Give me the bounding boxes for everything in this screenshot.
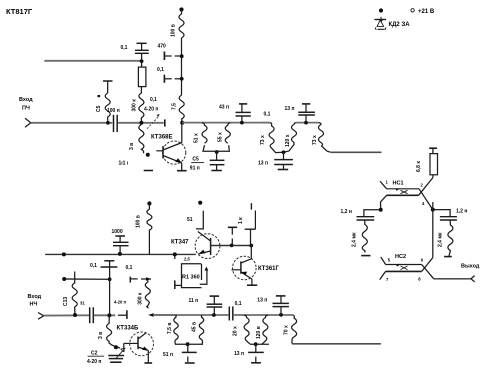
- node A junction dot: [139, 121, 143, 125]
- svg-text:С13: С13: [63, 297, 69, 306]
- svg-text:1,2 н: 1,2 н: [341, 209, 352, 215]
- capacitor 13p shunt up bottom: [273, 296, 289, 315]
- wire base lead T1: [156, 150, 163, 152]
- svg-text:4-20 п: 4-20 п: [87, 359, 101, 365]
- ground bar right chain: [444, 256, 452, 258]
- svg-text:КТ347: КТ347: [171, 240, 189, 246]
- bypass cap 0,1: [164, 75, 181, 83]
- svg-text:0,1: 0,1: [121, 45, 128, 51]
- pin 4 lead: [419, 189, 433, 210]
- capacitor series 0,1 gap style in rail: [260, 122, 270, 124]
- trimmer C1 arrow: [147, 117, 158, 129]
- junction dot 11p: [212, 313, 216, 317]
- wire emitter VT3: [251, 279, 253, 285]
- ground bar left chain: [361, 255, 370, 257]
- svg-text:13 п: 13 п: [285, 106, 295, 112]
- svg-text:КТ334Б: КТ334Б: [117, 326, 139, 332]
- coil audio feed: [72, 272, 77, 315]
- svg-text:43 п: 43 п: [219, 105, 229, 111]
- junction dot 1k: [249, 244, 253, 248]
- svg-text:НС1: НС1: [393, 181, 404, 187]
- coil L7: [319, 123, 331, 153]
- junction dot L6 bottom: [282, 150, 286, 154]
- svg-text:0,1: 0,1: [235, 301, 242, 307]
- svg-text:4-20 п: 4-20 п: [114, 300, 127, 305]
- svg-text:0,1: 0,1: [157, 67, 164, 73]
- svg-text:0,1: 0,1: [90, 263, 97, 269]
- wire left mixer branch: [364, 210, 381, 216]
- svg-text:31: 31: [80, 300, 85, 305]
- coil L5: [225, 123, 230, 143]
- svg-text:КТ817Г: КТ817Г: [6, 7, 33, 16]
- svg-text:13 п: 13 п: [258, 161, 268, 167]
- arrow wire to bias coil: [141, 277, 151, 281]
- wire C input: [44, 314, 89, 316]
- transistor VT4 KT334B: [124, 332, 154, 356]
- pin 1 lead: [380, 181, 387, 189]
- svg-text:470: 470: [158, 44, 167, 50]
- wire node B horizontal: [44, 60, 141, 62]
- svg-text:2,4 мк: 2,4 мк: [352, 232, 358, 247]
- wire resistor top: [141, 61, 143, 67]
- capacitor 0,1 above node B: [135, 43, 149, 61]
- choke L3 collector feed: [179, 95, 184, 123]
- choke 100v stage2: [147, 204, 152, 255]
- svg-text:13 п: 13 п: [257, 298, 267, 304]
- coil L2 with ground top: [103, 81, 113, 123]
- varicap VD legend symbol: [375, 17, 387, 30]
- node dot left mixer: [379, 208, 383, 212]
- dot wire A left: [62, 252, 66, 256]
- svg-text:1000: 1000: [112, 229, 123, 235]
- coil L6: [269, 123, 283, 153]
- svg-text:45 в: 45 в: [191, 322, 197, 332]
- collector stub VT4: [146, 306, 148, 308]
- wire rail second segment: [296, 122, 318, 124]
- coil 2,4mk left: [362, 220, 367, 253]
- label C5 91p: [190, 157, 200, 172]
- input terminal Vhod PCh: [19, 97, 33, 127]
- svg-text:8: 8: [418, 277, 421, 282]
- svg-text:13 п: 13 п: [234, 351, 244, 357]
- wire to VT3 collector: [250, 246, 252, 259]
- coil hang stage3 node: [107, 315, 120, 348]
- coil L4: [202, 123, 207, 143]
- transformer HC2: [386, 265, 422, 272]
- node dot right mixer: [431, 208, 435, 212]
- wire to mixer: [331, 151, 382, 153]
- svg-text:0,1: 0,1: [126, 265, 133, 271]
- pin 8 lead crossed: [422, 265, 434, 279]
- capacitor 1,2n right: [440, 217, 457, 220]
- junction dot L4L5: [215, 150, 219, 154]
- capacitor 13p to ground: [274, 152, 293, 169]
- input terminal Vhod NCh: [28, 294, 44, 319]
- trimmer C2 4-20p: [108, 348, 125, 362]
- capacitor series 0,1 bottom rail: [229, 307, 233, 321]
- transistor VT2 KT347: [195, 232, 220, 259]
- junction dot 13p shunt bottom: [279, 313, 283, 317]
- dot node A2: [107, 313, 111, 317]
- pin 6 lead crossed: [422, 258, 433, 272]
- svg-text:120 в: 120 в: [256, 326, 262, 339]
- pin 3 lead: [381, 195, 387, 210]
- svg-text:1,2 н: 1,2 н: [456, 209, 467, 215]
- svg-text:1: 1: [386, 180, 389, 185]
- capacitor series 100p: [114, 115, 118, 132]
- dot wire C coil: [73, 313, 77, 317]
- svg-text:3 в: 3 в: [129, 143, 135, 150]
- wire resistor pin2 lead crossed: [419, 178, 433, 196]
- capacitor 43p to ground up: [236, 104, 251, 123]
- wire down to wire C: [109, 279, 111, 315]
- wire collector T1: [181, 123, 183, 143]
- ground bar emitter T1: [177, 170, 187, 172]
- transistor VT3 KT361G: [232, 256, 257, 280]
- bypass cap 470: [164, 52, 181, 61]
- junction dot 13p shunt: [304, 121, 308, 125]
- resistor 300k body: [138, 67, 146, 87]
- svg-text:2,5: 2,5: [184, 257, 190, 262]
- svg-text:100 в: 100 в: [171, 24, 177, 37]
- trimmer C1 plate: [164, 119, 166, 126]
- trimmer plate wire C: [126, 310, 128, 319]
- choke L1 100uH supply: [179, 14, 184, 38]
- svg-text:300 к: 300 к: [137, 292, 143, 305]
- capacitor 13p shunt up: [298, 104, 315, 123]
- capacitor 91p to ground: [210, 152, 225, 171]
- capacitor 51p to ground: [182, 344, 197, 363]
- wire supply line down: [181, 38, 183, 95]
- svg-text:73 х: 73 х: [260, 135, 266, 145]
- coil P2L bottom: [244, 315, 250, 344]
- capacitor 1000: [113, 236, 129, 254]
- svg-text:1ı1 ı: 1ı1 ı: [119, 161, 129, 167]
- coil 2,4mk right: [448, 220, 453, 256]
- wire supply top: [181, 10, 183, 15]
- svg-text:+21 В: +21 В: [418, 9, 435, 15]
- capacitor base to ground (gap style): [228, 227, 237, 245]
- wire A emitter rail: [45, 253, 196, 255]
- svg-text:2: 2: [421, 183, 424, 188]
- wire bottom ladder out: [292, 343, 381, 345]
- wire right mixer branch: [433, 210, 450, 216]
- dot wire A 1000 cap: [118, 252, 122, 256]
- wire R1 to emitter rail: [175, 254, 182, 289]
- pin 7 lead: [380, 271, 386, 279]
- capacitor 0,1 bias stage3: [130, 277, 137, 283]
- resistor R1 360 trimmer box: [182, 264, 209, 288]
- coil P2R bottom: [262, 315, 268, 344]
- svg-text:1 к: 1 к: [238, 217, 244, 224]
- junction dot 0,1: [180, 77, 184, 81]
- svg-text:ПЧ: ПЧ: [22, 106, 30, 112]
- dot wire A R1: [173, 252, 177, 256]
- rail bottom ladder: [153, 314, 228, 316]
- resistor 1k chain: [245, 203, 256, 245]
- supply terminal dot (+21V) top: [179, 7, 183, 11]
- capacitor series wire C: [90, 307, 94, 323]
- svg-text:51 х: 51 х: [194, 133, 200, 143]
- junction dot base cap: [230, 244, 234, 248]
- svg-text:4-20 п: 4-20 п: [144, 107, 158, 113]
- junction dot 470: [180, 54, 184, 58]
- ground bar VT4: [144, 362, 152, 364]
- fraction bar C2: [88, 355, 105, 357]
- resistor 6,8k with ground top: [429, 148, 437, 177]
- wire C to node: [94, 314, 115, 316]
- svg-text:91 п: 91 п: [190, 166, 200, 172]
- svg-text:2,4 мк: 2,4 мк: [438, 232, 444, 247]
- arrow rail bottom ladder: [148, 313, 177, 317]
- svg-text:55 х: 55 х: [218, 132, 224, 142]
- output terminal chevron: [471, 276, 475, 282]
- capacitor 1,2n left: [357, 217, 375, 220]
- wire collector feed VT2: [196, 211, 203, 229]
- svg-text:100 п: 100 п: [107, 108, 120, 114]
- svg-text:7,5 в: 7,5 в: [167, 323, 173, 334]
- junction dot 43p: [240, 121, 244, 125]
- svg-text:5: 5: [388, 258, 391, 263]
- coil bias upper: [139, 87, 144, 123]
- svg-text:70 х: 70 х: [284, 325, 290, 335]
- supply terminal dot stage2 collector: [198, 201, 202, 205]
- wire output: [434, 278, 471, 280]
- svg-text:6: 6: [421, 258, 424, 263]
- wire L4 L5 bottoms join: [203, 145, 229, 151]
- wire B: [64, 278, 109, 280]
- svg-text:НС2: НС2: [395, 254, 406, 260]
- coil base lower: [139, 125, 144, 154]
- ground bar below base coil: [144, 170, 153, 172]
- rail bottom after cap: [233, 314, 294, 316]
- svg-text:4: 4: [422, 201, 425, 206]
- svg-text:51 п: 51 п: [163, 352, 173, 358]
- svg-text:73 х: 73 х: [312, 135, 318, 145]
- coil P1L bottom: [174, 315, 178, 344]
- pin 5 lead: [381, 257, 386, 265]
- svg-text:7: 7: [386, 277, 389, 282]
- junction dot P1: [186, 342, 190, 346]
- winding dot stage3: [114, 345, 118, 349]
- svg-text:С5: С5: [96, 105, 102, 112]
- svg-text:120 х: 120 х: [285, 134, 291, 147]
- svg-text:НЧ: НЧ: [30, 302, 38, 308]
- collector node dot: [180, 121, 184, 125]
- svg-text:С5: С5: [192, 157, 199, 163]
- wire P1 bottoms join: [175, 343, 203, 345]
- dot wire B right: [108, 277, 112, 281]
- winding dot base coil: [146, 153, 150, 157]
- coil L6b 120: [284, 123, 297, 153]
- svg-text:11 п: 11 п: [189, 298, 199, 304]
- legend open terminal circle: [411, 9, 414, 12]
- svg-text:7,5: 7,5: [172, 103, 178, 110]
- coil final bottom ladder: [292, 315, 297, 344]
- svg-text:КТ361Г: КТ361Г: [258, 266, 279, 272]
- coil bias stage3: [145, 280, 150, 307]
- wire input to C series: [31, 122, 113, 124]
- wire emitter VT4: [147, 351, 149, 363]
- svg-text:0,1: 0,1: [150, 97, 157, 103]
- svg-text:20 х: 20 х: [233, 326, 239, 336]
- legend junction dot: [379, 8, 383, 12]
- node B junction dot: [140, 59, 144, 63]
- svg-text:Вход: Вход: [19, 97, 33, 103]
- capacitor 13p bottom to ground: [248, 344, 264, 362]
- wire base VT2: [211, 245, 252, 247]
- transformer HC1: [387, 189, 419, 196]
- wire to node A: [118, 122, 164, 124]
- junction dot P2: [254, 342, 258, 346]
- transistor VT1 KT368E: [163, 141, 186, 170]
- dot wire B left: [62, 277, 66, 281]
- svg-text:Вход: Вход: [28, 294, 42, 300]
- svg-text:Выход: Выход: [461, 264, 480, 270]
- svg-text:6,8 к: 6,8 к: [416, 161, 422, 172]
- capacitor 0,1 wire B: [101, 261, 118, 280]
- junction dot L1 tap: [106, 121, 110, 125]
- svg-text:51: 51: [187, 217, 193, 223]
- svg-text:0,1: 0,1: [264, 111, 271, 117]
- wire pin4 to pin6: [432, 202, 434, 258]
- svg-text:КД2 ЗА: КД2 ЗА: [389, 22, 411, 28]
- ground bar VT3: [247, 284, 257, 286]
- wire P2 bottoms join: [250, 343, 269, 345]
- svg-text:R1 360: R1 360: [182, 275, 200, 281]
- capacitor 11p shunt up: [207, 296, 223, 315]
- svg-text:КТ368Е: КТ368Е: [151, 135, 173, 141]
- svg-text:300 к: 300 к: [132, 99, 138, 112]
- wire ladder rail: [182, 122, 260, 124]
- coil P1R bottom: [199, 315, 203, 344]
- supply terminal dot choke stage2: [147, 201, 151, 205]
- winding dot L2: [98, 95, 101, 97]
- svg-text:3 в: 3 в: [98, 332, 104, 339]
- svg-text:100 в: 100 в: [136, 215, 142, 228]
